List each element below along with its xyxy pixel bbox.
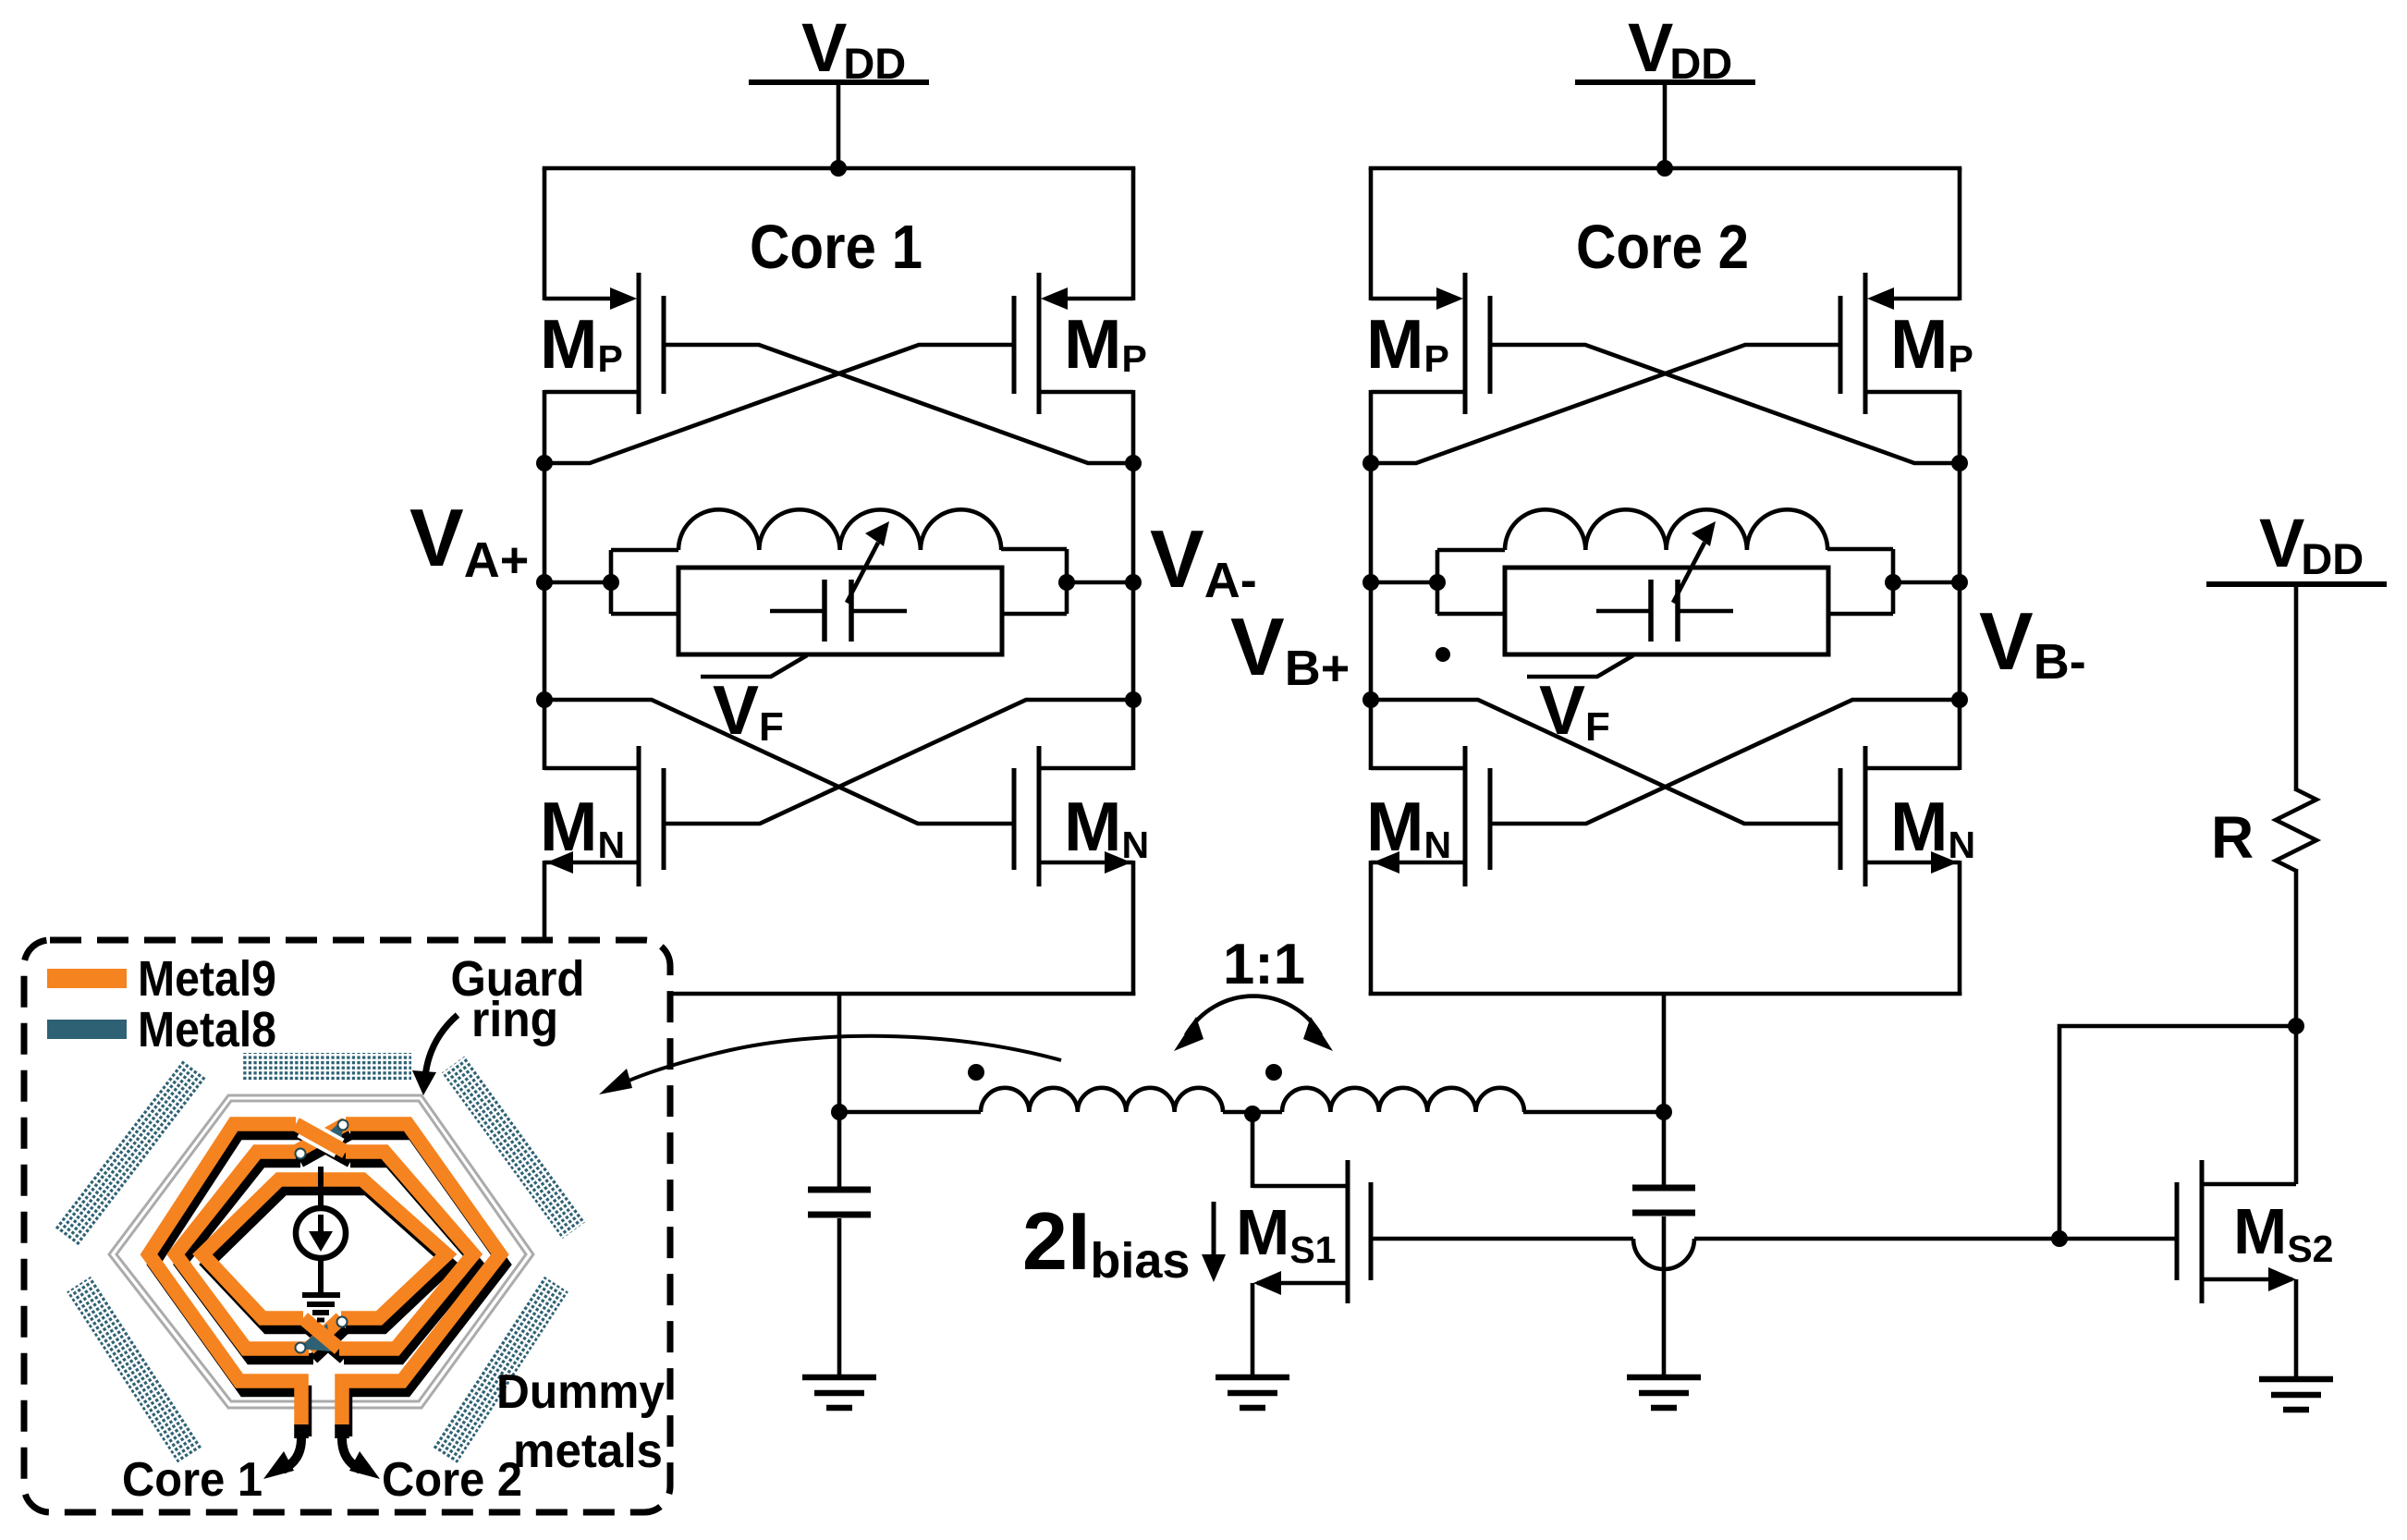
- wire VDD to R: [2294, 584, 2299, 791]
- terminal arrow core2: [342, 1424, 380, 1479]
- node VDD junction Core 1: [830, 160, 847, 177]
- label VA+: [409, 492, 529, 588]
- svg-text:metals: metals: [513, 1424, 663, 1478]
- wire tank left jog Core 2: [1437, 550, 1507, 614]
- node transformer center tap: [1244, 1106, 1261, 1122]
- transistor MP right Core 2: [1840, 273, 1973, 414]
- label VB-: [1979, 595, 2086, 690]
- transistor MN left Core 2: [1366, 746, 1490, 886]
- label inset Core 2: [382, 1453, 522, 1507]
- label R: [2211, 804, 2254, 871]
- inductor layout top crossover over: [296, 1124, 346, 1152]
- node tank left rail Core 2: [1362, 574, 1379, 591]
- node tank right Core 1: [1058, 574, 1075, 591]
- svg-text:R: R: [2211, 804, 2254, 871]
- varactor capacitor Core 2: [1596, 580, 1733, 642]
- via dots bottom: [296, 1317, 348, 1353]
- inductor layout middle turn left: [176, 1152, 309, 1349]
- node phase dot primary: [968, 1064, 984, 1081]
- VDD supply symbol Core 2: [1575, 9, 1755, 168]
- VDD supply symbol Core 1: [749, 9, 929, 168]
- core box label Core 2: [1576, 213, 1749, 282]
- svg-text:Dummy: Dummy: [496, 1365, 665, 1419]
- wire NMOS cross-couple left-node to right-gate Core 2: [1371, 700, 1840, 824]
- coupling arrow 1:1: [1174, 996, 1333, 1051]
- capacitor C2: [1632, 1112, 1695, 1377]
- ground MS1: [1216, 1377, 1289, 1408]
- node tank left Core 1: [603, 574, 619, 591]
- dummy metals band SW: [67, 1276, 203, 1464]
- inductor layout bottom crossover under: [309, 1318, 341, 1349]
- via underpass top: [322, 1118, 344, 1143]
- wire right rail mid Core 2: [1958, 390, 1962, 770]
- wire PMOS cross-couple left-gate to right-node Core 2: [1490, 345, 1960, 463]
- svg-text:Core 1: Core 1: [122, 1453, 263, 1507]
- varactor capacitor Core 1: [770, 580, 907, 642]
- label VF Core 2: [1539, 671, 1610, 750]
- inductor layout top crossover under: [296, 1124, 346, 1152]
- label inset Core 1: [122, 1453, 263, 1507]
- core box label Core 1: [750, 213, 922, 282]
- node drain left Core 2: [1362, 455, 1379, 471]
- inductor layout outer turn left: [149, 1124, 301, 1426]
- node phase dot core2 tank: [1436, 647, 1450, 662]
- varactor box Core 1: [678, 568, 1002, 654]
- node source left Core 1: [536, 691, 553, 708]
- wire tank left lead Core 2: [1371, 581, 1437, 585]
- legend swatch Metal9: [47, 969, 127, 988]
- wire tank right jog Core 2: [1827, 549, 1893, 614]
- wire top rail Core 1: [543, 166, 1136, 171]
- dummy metals band SE: [432, 1276, 568, 1464]
- dummy metals band NE: [442, 1056, 586, 1239]
- node gate bias junction: [2051, 1230, 2068, 1247]
- varactor box Core 2: [1505, 568, 1828, 654]
- wire NMOS cross-couple right-node to left-gate Core 1: [664, 700, 1133, 824]
- node drain left Core 1: [536, 455, 553, 471]
- node tank right rail Core 2: [1951, 574, 1968, 591]
- wire core2 tail stub: [1662, 994, 1667, 1114]
- wire PMOS cross-couple right-gate to left-node Core 1: [544, 345, 1014, 463]
- svg-text:Metal8: Metal8: [138, 1002, 276, 1057]
- wire tank right lead Core 2: [1893, 581, 1960, 585]
- label Guard ring: [451, 951, 585, 1047]
- transistor MN left Core 1: [540, 746, 664, 886]
- node tank left Core 2: [1429, 574, 1446, 591]
- transistor MN right Core 2: [1840, 746, 1975, 886]
- resistor R: [2276, 789, 2316, 871]
- svg-text:Metal9: Metal9: [138, 951, 276, 1007]
- inductor transformer secondary: [1282, 1088, 1524, 1112]
- tuning arrow Core 2: [1673, 521, 1716, 603]
- callout arrow transformer to inset: [599, 1036, 1061, 1094]
- wire PMOS cross-couple left-gate to right-node Core 1: [664, 345, 1133, 463]
- label VF Core 1: [713, 671, 784, 750]
- svg-text:ring: ring: [471, 992, 558, 1047]
- inductor layout shadow: [153, 1134, 505, 1436]
- wire MS2 diode connection: [2059, 1026, 2296, 1239]
- wire R to MS2 drain: [2294, 869, 2299, 1028]
- legend label Metal9: [138, 951, 276, 1007]
- wire right rail upper Core 2: [1958, 168, 1962, 300]
- ground MS2: [2259, 1379, 2333, 1410]
- wire left rail upper Core 2: [1369, 168, 1374, 300]
- transistor MS2: [2177, 1026, 2296, 1381]
- wire transformer secondary lead: [1523, 1110, 1664, 1115]
- inductor tank Core 1: [678, 509, 1001, 550]
- wire tank right lead Core 1: [1067, 581, 1133, 585]
- inductor layout bottom crossover over: [303, 1318, 339, 1349]
- wire VF tap Core 1: [701, 655, 807, 677]
- wire right rail mid Core 1: [1131, 390, 1136, 770]
- wire tank left lead Core 1: [544, 581, 611, 585]
- transistor MP left Core 2: [1366, 273, 1490, 414]
- label Dummy metals: [496, 1365, 665, 1478]
- wire tail Core 2: [1369, 992, 1962, 996]
- wire left rail mid Core 1: [543, 390, 547, 770]
- node MS2 drain junction: [2288, 1018, 2304, 1034]
- dummy metals band NW: [55, 1060, 207, 1247]
- node phase dot secondary: [1265, 1064, 1282, 1081]
- label 2Ibias: [1022, 1195, 1190, 1289]
- svg-text:Core 1: Core 1: [750, 213, 922, 282]
- inductor transformer primary: [981, 1088, 1223, 1112]
- wire right rail upper Core 1: [1131, 168, 1136, 300]
- ground core1 cap: [802, 1377, 876, 1408]
- node source right Core 2: [1951, 691, 1968, 708]
- wire gate bias: [1371, 1239, 2177, 1269]
- terminal arrow core1: [263, 1424, 301, 1479]
- inset dashed box: [24, 940, 670, 1512]
- label VB+: [1230, 601, 1350, 696]
- wire core1 tail stub: [837, 994, 842, 1114]
- legend swatch Metal8: [47, 1020, 127, 1039]
- transistor MS1: [1252, 1112, 1371, 1377]
- wire right rail lower Core 2: [1958, 861, 1962, 996]
- guard ring arrow: [412, 1015, 458, 1095]
- wire left rail lower Core 2: [1369, 861, 1374, 996]
- wire top rail Core 2: [1369, 166, 1962, 171]
- svg-text:Core 2: Core 2: [1576, 213, 1749, 282]
- wire transformer center link: [1223, 1110, 1282, 1115]
- node tank left rail Core 1: [536, 574, 553, 591]
- inductor tank Core 2: [1505, 509, 1827, 550]
- legend label Metal8: [138, 1002, 276, 1057]
- node tank right Core 2: [1885, 574, 1901, 591]
- wire transformer primary lead: [839, 1110, 981, 1115]
- inductor layout outer turn right: [342, 1124, 500, 1426]
- svg-text:1:1: 1:1: [1223, 933, 1305, 996]
- wire tail Core 1: [543, 992, 1136, 996]
- bias arrow: [1202, 1202, 1226, 1282]
- wire right rail lower Core 1: [1131, 861, 1136, 996]
- svg-text:Core 2: Core 2: [382, 1453, 522, 1507]
- node drain right Core 1: [1125, 455, 1142, 471]
- label 1:1: [1223, 933, 1305, 996]
- inductor layout inner turn left: [202, 1179, 446, 1318]
- node core1 tail junction: [831, 1104, 848, 1120]
- VDD supply symbol right: [2206, 505, 2387, 584]
- node transformer right: [1656, 1104, 1672, 1120]
- label MS1: [1236, 1196, 1336, 1271]
- transistor MN right Core 1: [1014, 746, 1149, 886]
- transistor MP left Core 1: [540, 273, 664, 414]
- dummy metals band top: [243, 1053, 411, 1081]
- label MS2: [2233, 1195, 2333, 1270]
- node tank right rail Core 1: [1125, 574, 1142, 591]
- node source left Core 2: [1362, 691, 1379, 708]
- capacitor C1: [808, 1112, 871, 1377]
- via dots top: [296, 1120, 348, 1159]
- wire PMOS cross-couple right-gate to left-node Core 2: [1371, 345, 1840, 463]
- wire left rail lower Core 1: [543, 861, 547, 996]
- ground current source: [302, 1295, 340, 1320]
- node VDD junction Core 2: [1656, 160, 1673, 177]
- ground core2 cap: [1627, 1377, 1701, 1408]
- transistor MP right Core 1: [1014, 273, 1147, 414]
- current source: [296, 1167, 346, 1292]
- node drain right Core 2: [1951, 455, 1968, 471]
- wire NMOS cross-couple left-node to right-gate Core 1: [544, 700, 1014, 824]
- tuning arrow Core 1: [847, 521, 889, 603]
- wire tank right jog Core 1: [1001, 549, 1067, 614]
- node source right Core 1: [1125, 691, 1142, 708]
- wire VF tap Core 2: [1527, 655, 1633, 677]
- wire left rail mid Core 2: [1369, 390, 1374, 770]
- label VA-: [1150, 513, 1257, 608]
- wire left rail upper Core 1: [543, 168, 547, 300]
- guard ring: [109, 1095, 533, 1408]
- wire tank left jog Core 1: [611, 550, 680, 614]
- via underpass bottom: [298, 1324, 331, 1351]
- wire NMOS cross-couple right-node to left-gate Core 2: [1490, 700, 1960, 824]
- inductor layout middle turn right: [339, 1152, 473, 1349]
